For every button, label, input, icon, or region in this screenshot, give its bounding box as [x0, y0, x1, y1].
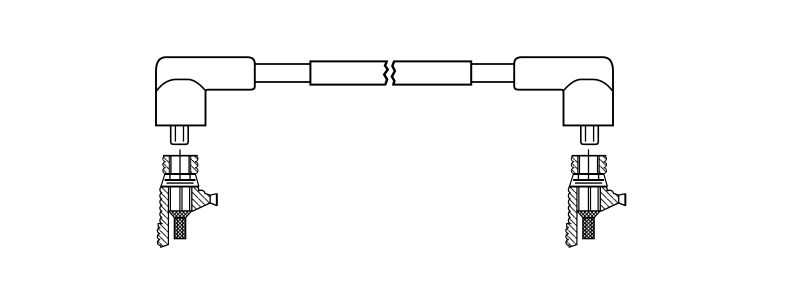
left elbow connector — [156, 57, 255, 144]
cable sleeve left with break edge — [310, 61, 387, 84]
cable line right — [471, 64, 514, 82]
left socket tower — [157, 149, 217, 247]
right socket tower — [566, 149, 626, 247]
cable line left — [255, 64, 311, 82]
right elbow connector (mirrored) — [514, 57, 613, 144]
cable sleeve right with break edge — [392, 61, 471, 84]
